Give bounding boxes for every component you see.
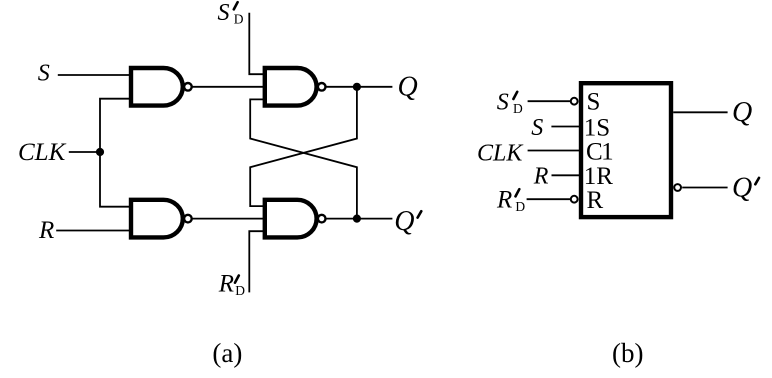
NAND gate U1 xyxy=(131,68,183,106)
wire output Q xyxy=(673,111,727,113)
svg-text:CLK: CLK xyxy=(18,139,67,166)
svg-text:1S: 1S xyxy=(584,114,610,141)
svg-text:1R: 1R xyxy=(584,163,614,190)
wire CLK branch to U1 and U3 xyxy=(100,99,132,207)
svg-text:Q: Q xyxy=(732,173,752,204)
svg-text:D: D xyxy=(235,283,245,298)
svg-text:D: D xyxy=(515,199,525,214)
wire pin 1S xyxy=(551,126,579,128)
svg-text:Q: Q xyxy=(394,206,414,237)
NAND gate U4 xyxy=(265,200,317,238)
flip-flop box xyxy=(581,83,671,217)
junction dot Q node xyxy=(353,83,361,91)
wire U3 output to U4 xyxy=(193,218,264,220)
svg-text:R: R xyxy=(533,164,549,190)
output bubble Q' xyxy=(674,184,681,191)
input bubble SD xyxy=(571,98,578,105)
svg-text:D: D xyxy=(513,101,523,116)
wire S'D vertical xyxy=(249,13,263,74)
wire Q' output xyxy=(326,218,392,220)
wire R'D vertical xyxy=(249,231,263,292)
NAND gate U2 xyxy=(265,68,317,106)
output bubble U2 xyxy=(318,83,326,91)
svg-text:S: S xyxy=(587,88,601,115)
svg-text:C1: C1 xyxy=(586,138,612,165)
svg-text:S: S xyxy=(497,89,509,115)
output bubble U4 xyxy=(318,215,326,223)
svg-text:CLK: CLK xyxy=(477,140,524,166)
input bubble RD xyxy=(571,196,578,203)
wire U1 output to U2 xyxy=(193,86,264,88)
output bubble U3 xyxy=(184,215,192,223)
wire pin C1 xyxy=(528,150,579,152)
wire feedback Q' node to U2 input xyxy=(250,99,357,218)
wire pin 1R xyxy=(552,174,580,176)
output bubble U1 xyxy=(184,83,192,91)
wire pin RD xyxy=(527,198,571,200)
junction dot CLK xyxy=(96,148,104,156)
prime of S'D (b) xyxy=(513,92,517,99)
prime of R'D xyxy=(235,276,239,283)
prime of R'D (b) xyxy=(516,189,520,196)
svg-text:Q: Q xyxy=(398,71,418,102)
svg-text:S: S xyxy=(218,0,230,26)
NAND gate U3 xyxy=(131,200,183,238)
wire output Q' xyxy=(682,187,727,189)
wire pin SD xyxy=(528,100,571,102)
prime of S'D xyxy=(234,2,238,9)
wire CLK input xyxy=(69,151,100,153)
svg-text:S: S xyxy=(531,115,543,141)
svg-text:Q: Q xyxy=(732,97,752,128)
svg-text:D: D xyxy=(234,11,244,26)
svg-text:(a): (a) xyxy=(212,338,242,368)
svg-text:(b): (b) xyxy=(612,338,643,368)
wire R input xyxy=(56,230,131,232)
wire feedback Q node to U4 input xyxy=(250,87,357,206)
svg-text:R: R xyxy=(587,187,604,214)
junction dot Q' node xyxy=(353,215,361,223)
prime of Q' xyxy=(418,211,422,217)
svg-text:S: S xyxy=(38,61,50,87)
svg-text:R: R xyxy=(218,271,234,298)
wire S input xyxy=(58,74,131,76)
prime of Q' (b) xyxy=(755,178,759,184)
svg-text:R: R xyxy=(496,186,512,213)
svg-text:R: R xyxy=(38,217,54,244)
wire Q output xyxy=(326,86,392,88)
